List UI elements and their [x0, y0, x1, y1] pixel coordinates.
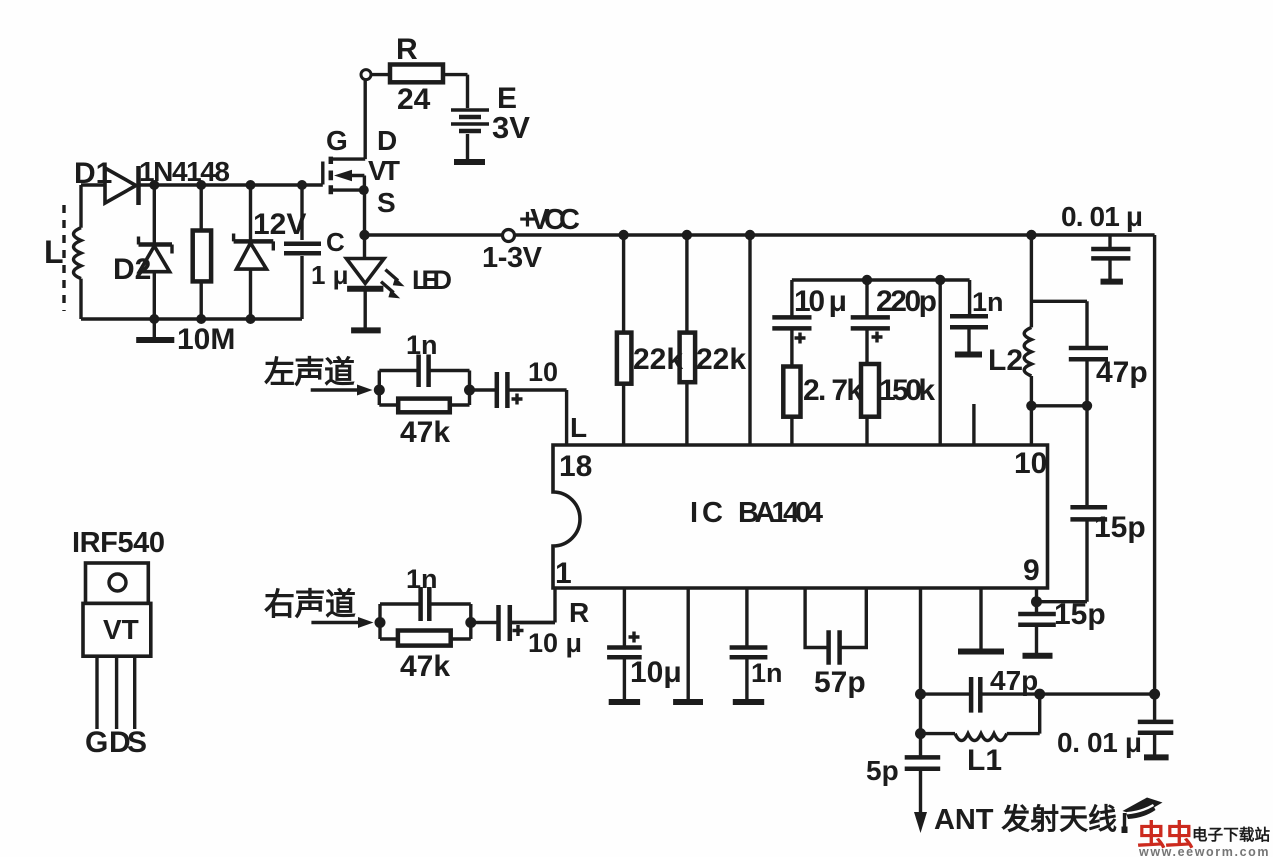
ground 10M net — [153, 319, 156, 337]
wire pin3 ground — [687, 588, 690, 700]
resistor 22k first — [618, 230, 628, 240]
capacitor 10u right electrolytic — [471, 621, 555, 624]
svg-text:D2: D2 — [113, 253, 151, 286]
svg-text:10 μ: 10 μ — [528, 628, 582, 658]
inductor L2 — [1026, 230, 1036, 240]
diode D1 — [105, 168, 136, 203]
svg-text:R: R — [569, 597, 589, 628]
svg-text:1-3V: 1-3V — [482, 242, 543, 274]
svg-text:D: D — [377, 125, 397, 156]
node bottom rail junctions — [149, 314, 159, 324]
resistor 150k — [861, 364, 879, 417]
svg-text:L2: L2 — [988, 344, 1023, 377]
svg-text:G: G — [326, 125, 348, 156]
svg-text:15p: 15p — [1094, 511, 1146, 544]
capacitor 57p pins5-6 — [805, 588, 866, 648]
svg-text:+VCC: +VCC — [519, 204, 580, 236]
svg-text:9: 9 — [1023, 554, 1040, 587]
svg-text:1n: 1n — [406, 564, 438, 594]
svg-text:15p: 15p — [1054, 598, 1106, 631]
wire pin10 — [1030, 406, 1033, 445]
svg-text:1n: 1n — [406, 330, 438, 360]
svg-text:47p: 47p — [990, 665, 1038, 696]
LED — [363, 235, 366, 257]
svg-text:S: S — [127, 726, 147, 759]
ground LED — [351, 327, 381, 333]
wire pin1 jog — [510, 621, 555, 624]
wire pin7 drop — [919, 588, 922, 756]
svg-text:1n: 1n — [751, 658, 783, 688]
svg-text:10μ: 10μ — [630, 656, 682, 689]
svg-text:1n: 1n — [972, 287, 1004, 317]
svg-text:1 μ: 1 μ — [311, 260, 349, 290]
node top rail junctions — [149, 180, 159, 190]
node gate terminal circle — [361, 70, 371, 80]
capacitor 0.01u top — [1108, 235, 1111, 247]
svg-text:12V: 12V — [253, 208, 306, 241]
battery E 3V — [451, 110, 489, 124]
svg-text:L: L — [570, 412, 587, 443]
wire left RC loop — [379, 371, 469, 406]
svg-text:0. 01 μ: 0. 01 μ — [1061, 201, 1143, 232]
svg-text:左声道: 左声道 — [264, 355, 355, 390]
wire mid node rail — [792, 278, 970, 281]
resistor R 24 — [371, 75, 468, 108]
zener D2 — [153, 185, 156, 319]
wire left input arrow — [311, 388, 357, 391]
svg-text:47k: 47k — [400, 416, 450, 449]
svg-text:10: 10 — [528, 357, 558, 387]
capacitor 0.01u bottom — [1153, 694, 1156, 720]
ground pin4 — [733, 699, 764, 705]
svg-text:www.eeworm.com: www.eeworm.com — [1138, 845, 1270, 857]
wire pin12 — [935, 275, 945, 285]
inductor L — [79, 185, 82, 319]
svg-text:VT: VT — [103, 614, 139, 645]
ground pin8 — [979, 588, 982, 649]
wire pin9 jog — [1035, 588, 1038, 602]
svg-text:2. 7k: 2. 7k — [803, 374, 863, 407]
capacitor 10u mid — [790, 280, 793, 367]
wire bottom rail — [81, 317, 302, 320]
svg-text:150k: 150k — [879, 374, 935, 407]
resistor 10M body — [199, 185, 202, 319]
watermark logo cap — [1122, 798, 1163, 834]
capacitor 1n mid — [968, 280, 971, 314]
svg-text:18: 18 — [559, 450, 592, 483]
ground 1n mid — [955, 352, 982, 358]
svg-text:电子下载站: 电子下载站 — [1192, 825, 1270, 844]
capacitor 10u pin2 — [623, 588, 626, 646]
svg-text:3V: 3V — [492, 110, 530, 145]
wire right input arrow — [311, 621, 358, 624]
zener 12V — [249, 185, 252, 319]
wire to pin1 — [553, 588, 556, 623]
ground pin2 — [609, 699, 640, 705]
svg-text:24: 24 — [397, 83, 431, 116]
svg-text:10: 10 — [1014, 447, 1047, 480]
svg-text:10 μ: 10 μ — [794, 285, 847, 318]
svg-text:C: C — [326, 227, 345, 257]
svg-text:220p: 220p — [876, 285, 937, 318]
IC U1 BA1404 — [553, 445, 1048, 588]
transistor Q VT mosfet — [321, 162, 324, 185]
capacitor 5p — [905, 757, 941, 768]
capacitor 15p upper — [1037, 406, 1088, 602]
resistor 22k second — [682, 230, 692, 240]
svg-text:5p: 5p — [866, 755, 899, 786]
core dashed line — [62, 205, 65, 311]
resistor 47k left — [398, 399, 450, 413]
capacitor 220p — [862, 275, 872, 285]
resistor 2.7k — [783, 367, 800, 417]
wire top rail 1N4148 net — [81, 183, 323, 186]
svg-text:S: S — [377, 187, 396, 218]
svg-text:BA1404: BA1404 — [738, 497, 823, 529]
svg-text:L: L — [44, 234, 64, 270]
svg-text:57p: 57p — [814, 666, 866, 699]
svg-text:G: G — [85, 726, 108, 759]
wire to pin18 — [565, 390, 568, 445]
capacitor 47p upper — [1031, 301, 1087, 406]
capacitor 1n left — [419, 355, 429, 388]
ground 0.01u bottom — [1144, 754, 1169, 760]
wire right RC loop — [380, 604, 471, 639]
svg-text:47p: 47p — [1096, 356, 1148, 389]
svg-text:R: R — [396, 33, 418, 66]
wire right edge VCC drop — [1153, 235, 1156, 694]
svg-text:IC: IC — [690, 497, 723, 529]
svg-text:10M: 10M — [177, 323, 235, 356]
LED arrows — [381, 270, 398, 293]
svg-text:22k: 22k — [696, 343, 746, 376]
package legs — [97, 656, 135, 729]
capacitor 1n right — [421, 587, 430, 621]
svg-text:0. 01 μ: 0. 01 μ — [1057, 727, 1142, 758]
capacitor C 1u — [300, 185, 303, 319]
ground 15p lower — [1023, 653, 1053, 659]
capacitor 15p lower — [1035, 602, 1038, 612]
svg-text:L1: L1 — [967, 744, 1002, 777]
svg-text:ANT 发射天线: ANT 发射天线 — [934, 803, 1117, 836]
svg-text:1: 1 — [555, 557, 572, 590]
node VCC terminal circle — [503, 230, 515, 242]
wire +VCC rail — [365, 233, 1155, 236]
svg-text:LED: LED — [412, 265, 452, 295]
wire pin15 — [745, 230, 755, 240]
svg-text:右声道: 右声道 — [264, 587, 356, 622]
svg-text:IRF540: IRF540 — [72, 527, 165, 559]
wire pin11 stub — [972, 404, 975, 445]
antenna arrow ANT — [914, 812, 927, 833]
ground battery — [454, 159, 485, 165]
capacitor 10u left electrolytic — [470, 388, 567, 391]
svg-text:47k: 47k — [400, 650, 450, 683]
resistor 47k right — [398, 631, 451, 646]
svg-text:VT: VT — [368, 155, 400, 186]
capacitor 1n pin4 — [745, 588, 748, 646]
capacitor 47p bottom — [921, 692, 1155, 695]
svg-text:22k: 22k — [633, 343, 683, 376]
inductor L1 — [921, 694, 1040, 734]
ground 0.01u top — [1101, 279, 1123, 285]
